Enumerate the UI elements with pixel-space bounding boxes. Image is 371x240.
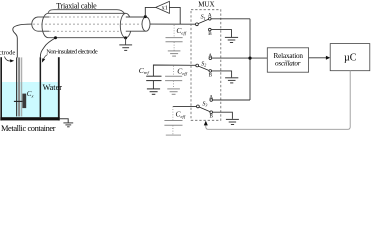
label S2	[201, 61, 206, 67]
triaxial cable inner shield cylinder (left cap + dashed hidden edges)	[32, 17, 121, 31]
svg-text:µC: µC	[344, 53, 357, 64]
capacitor Cx plate mark	[14, 94, 26, 109]
label Insulated electrode (cut off at left edge)	[0, 50, 15, 57]
svg-text:MUX: MUX	[198, 1, 214, 9]
wire S3-A to bus	[213, 99, 251, 101]
capacitor Ceff3	[164, 121, 182, 136]
capacitor Ceff2 dotted drop from reference wire	[173, 66, 175, 76]
svg-text:Water: Water	[43, 83, 63, 92]
triaxial cable inner shield right portion	[126, 17, 150, 31]
svg-text:Ceff: Ceff	[176, 110, 186, 119]
non-insulated electrode	[40, 57, 42, 117]
label S2 contact A	[208, 53, 212, 59]
wire reference node to switch S2	[153, 65, 195, 76]
ground below Cref	[147, 89, 160, 94]
svg-text:Ceff: Ceff	[177, 67, 187, 76]
label Non-insulated electrode	[46, 48, 98, 55]
svg-text:S2: S2	[201, 61, 206, 67]
arrow control line into MUX	[204, 121, 208, 126]
label Triaxial cable	[56, 1, 97, 10]
arrow from non-insulated-electrode label	[42, 55, 48, 63]
node: junction dot cable shield to non-insulated electrode	[54, 36, 57, 39]
svg-text:S1: S1	[201, 15, 206, 21]
metallic container walls	[0, 57, 59, 120]
switch S2	[196, 57, 212, 72]
MUX dashed box	[191, 10, 221, 121]
svg-text:B: B	[208, 31, 212, 37]
relaxation oscillator box	[267, 48, 308, 72]
capacitor Ceff2	[165, 76, 182, 88]
svg-text:A: A	[208, 13, 212, 19]
label Ceff3	[176, 110, 186, 119]
capacitor Cref	[146, 76, 161, 88]
svg-text:ctrode: ctrode	[0, 50, 15, 57]
svg-text:Triaxial cable: Triaxial cable	[56, 1, 97, 10]
wire S2-B to ground	[212, 71, 232, 78]
label S3	[202, 101, 207, 107]
svg-text:B: B	[209, 72, 213, 78]
cable center axis line	[33, 23, 142, 25]
insulated electrode (tube with inner rod)	[16, 57, 22, 116]
label S1 contact A	[208, 13, 212, 19]
svg-text:x1: x1	[162, 5, 168, 12]
wire third node to switch S3	[173, 105, 197, 107]
leader line from label to cable	[48, 10, 125, 14]
microcontroller box	[330, 44, 370, 71]
wire buffer input from signal line	[169, 7, 180, 24]
label S2 contact B	[209, 72, 213, 78]
svg-text:S3: S3	[202, 101, 207, 107]
svg-text:Ceff: Ceff	[176, 26, 186, 35]
label Ceff2	[177, 67, 187, 76]
ground below cable shield	[119, 38, 132, 50]
arrow from insulated-electrode label	[5, 57, 15, 63]
op-amp U1 x1 buffer triangle	[156, 1, 170, 13]
label S3 contact B	[210, 114, 214, 120]
arrow into microcontroller	[326, 56, 330, 60]
label Cx	[27, 90, 34, 99]
label S3 contact A	[209, 95, 213, 101]
wire microcontroller control line to MUX	[206, 71, 350, 130]
triaxial cable outer cylinder	[42, 13, 126, 37]
node: guard dot on inner shield	[144, 15, 147, 18]
wire from cable core to insulated electrode	[13, 24, 32, 58]
label S1	[201, 15, 206, 21]
label S1 contact B	[208, 31, 212, 37]
ground below Ceff1	[168, 51, 181, 56]
capacitor Ceff1 dotted drop from signal line	[173, 25, 175, 37]
wire S1-A to bus	[211, 18, 250, 20]
ground S2-B	[225, 78, 238, 83]
wire signal line core to switch S1	[150, 23, 196, 25]
switch S1	[196, 18, 212, 31]
label Cref	[139, 66, 150, 75]
wire from cable outer shield to non-insulated electrode	[40, 38, 55, 58]
capacitor Ceff3 dotted drop	[172, 106, 174, 120]
label MUX	[198, 1, 214, 9]
wire bus vertical	[249, 19, 251, 100]
node: junction dot bus to oscillator	[248, 57, 251, 60]
metallic container water fill	[2, 82, 58, 117]
ground S1-B	[225, 37, 238, 42]
svg-text:B: B	[210, 114, 214, 120]
label Water	[43, 83, 63, 92]
svg-text:Non-insulated electrode: Non-insulated electrode	[46, 48, 98, 55]
svg-text:oscillator: oscillator	[275, 59, 301, 67]
wire S3-B to ground	[213, 112, 233, 119]
wire S2-A to oscillator input	[212, 57, 268, 59]
container ground	[60, 119, 73, 127]
switch S3	[197, 99, 213, 114]
capacitor Ceff1	[166, 38, 183, 51]
label Metallic container	[1, 124, 56, 133]
wire oscillator output to microcontroller	[309, 57, 327, 59]
svg-text:Cref: Cref	[139, 66, 150, 75]
wire buffer output to guard shield	[145, 7, 155, 16]
ground below Ceff2	[167, 89, 180, 94]
wire S1-B to ground	[211, 30, 231, 37]
svg-text:Metallic container: Metallic container	[1, 124, 56, 133]
ground S3-B	[226, 119, 239, 124]
node: junction dot cable shield to ground	[124, 36, 127, 39]
label Ceff1	[176, 26, 186, 35]
triaxial cable outer shield end cap ellipse	[120, 13, 131, 37]
